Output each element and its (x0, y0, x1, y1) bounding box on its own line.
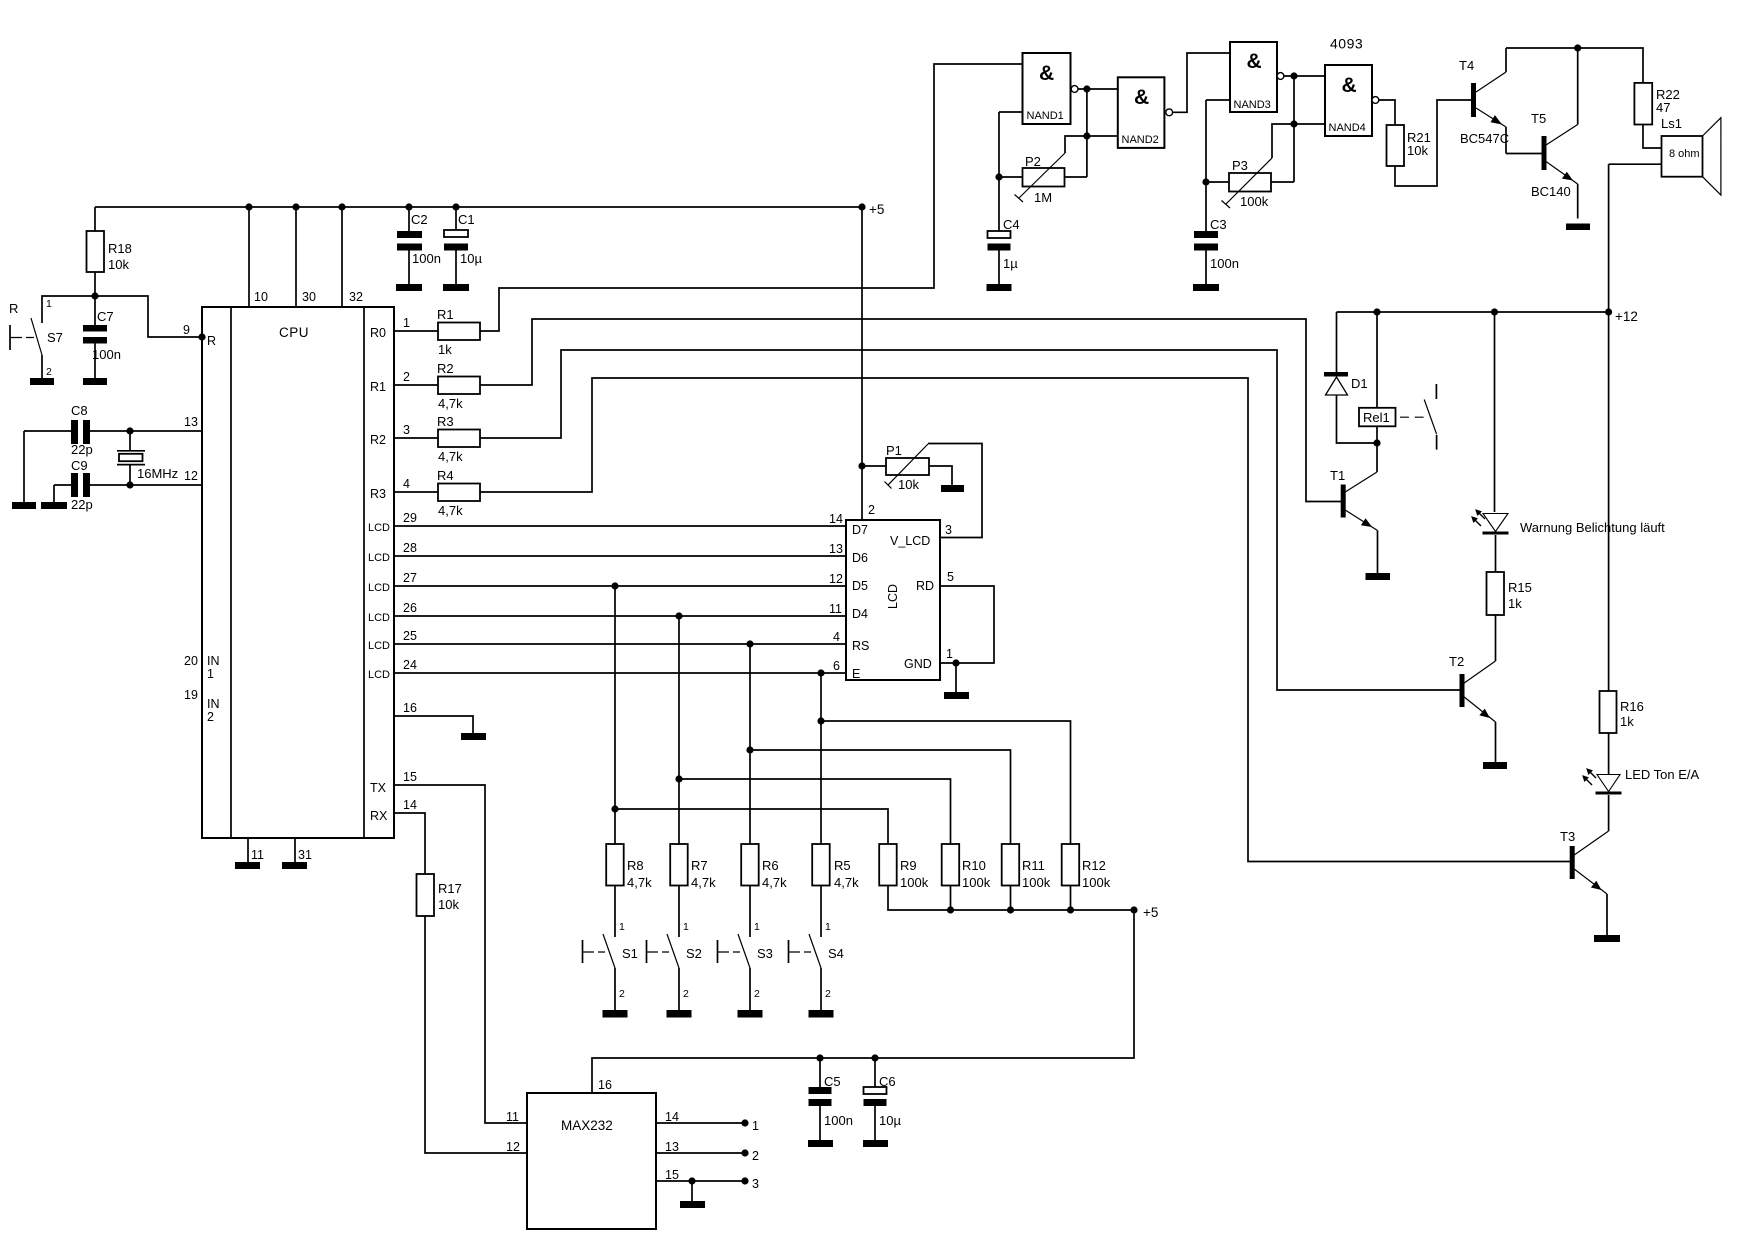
svg-text:1k: 1k (1508, 596, 1522, 611)
svg-text:11: 11 (506, 1110, 519, 1124)
svg-text:R10: R10 (962, 858, 986, 873)
wire LCD E (CPU pin 24 to LCD pin 6) (394, 672, 846, 674)
relay Rel1 (1359, 408, 1396, 427)
wire +5 vertical to LCD pin 2 (861, 207, 863, 520)
node C6 tap (871, 1054, 878, 1061)
svg-text:11: 11 (829, 602, 842, 616)
svg-text:10k: 10k (1407, 143, 1428, 158)
wire R12 bottom (1070, 886, 1072, 911)
svg-text:T2: T2 (1449, 654, 1464, 669)
wire D4 column down to R7 (678, 616, 680, 844)
node CPU pin 9 (198, 333, 205, 340)
svg-text:2: 2 (683, 988, 689, 1000)
capacitor C7 (83, 309, 121, 378)
wire D1 anode to relay bottom junction (1337, 395, 1378, 443)
node pin 15 ground tap (688, 1177, 695, 1184)
svg-text:4,7k: 4,7k (438, 503, 463, 518)
resistor R22 (1634, 83, 1652, 125)
svg-text:RX: RX (370, 809, 388, 823)
svg-text:10µ: 10µ (879, 1113, 901, 1128)
svg-text:10µ: 10µ (460, 251, 482, 266)
svg-text:D1: D1 (1351, 376, 1368, 391)
svg-text:100k: 100k (1082, 875, 1111, 890)
wire RS column down to R6 (749, 644, 751, 844)
ground S7 (30, 378, 54, 385)
svg-text:4,7k: 4,7k (762, 875, 787, 890)
svg-text:3: 3 (945, 523, 952, 537)
svg-text:10k: 10k (438, 897, 459, 912)
wire pin 15 to ground (691, 1181, 693, 1201)
ground LCD (944, 692, 969, 699)
wire MAX232 pin 15 to terminal 3 (656, 1180, 745, 1182)
wire R10 bottom (950, 886, 952, 911)
svg-text:4,7k: 4,7k (834, 875, 859, 890)
wire to NAND2 input A (1087, 88, 1118, 90)
svg-text:R3: R3 (437, 414, 454, 429)
switch S1 (583, 886, 638, 1011)
wire junction to P2 left (999, 176, 1023, 178)
capacitor C6 (864, 1058, 902, 1140)
resistor R18 (87, 231, 105, 272)
wire R15 to T2 collector (1495, 615, 1497, 661)
svg-text:4: 4 (403, 477, 410, 491)
node NAND2 input B junction (1083, 132, 1090, 139)
ground C7 (83, 378, 107, 385)
wire CPU R1 pin 2 to R2 (394, 384, 438, 386)
node R11 tap (746, 746, 753, 753)
svg-text:4093: 4093 (1330, 36, 1363, 52)
svg-text:2: 2 (207, 710, 214, 724)
wire CPU pin 32 to +5 rail (341, 207, 343, 307)
svg-text:1: 1 (825, 921, 831, 933)
svg-text:2: 2 (754, 988, 760, 1000)
crystal Q1 16MHz (117, 431, 178, 485)
wire P2 wiper to NAND2 input B node (1065, 136, 1087, 153)
svg-text:2: 2 (752, 1149, 759, 1163)
resistor R8 (606, 844, 624, 886)
ground C9 (41, 502, 67, 509)
svg-text:14: 14 (665, 1110, 679, 1124)
svg-text:TX: TX (370, 781, 387, 795)
svg-text:C3: C3 (1210, 217, 1227, 232)
svg-text:GND: GND (904, 657, 932, 671)
svg-text:T1: T1 (1330, 468, 1345, 483)
svg-text:10k: 10k (108, 257, 129, 272)
wire R11 bottom (1010, 886, 1012, 911)
ground P1 (941, 485, 964, 492)
svg-text:100k: 100k (1022, 875, 1051, 890)
op-amp U6 NAND4 (1325, 65, 1379, 136)
ground T2 emitter (1483, 762, 1507, 769)
resistor R16 (1600, 691, 1617, 733)
wire tap to R9 (615, 809, 888, 844)
wire rail to Rel1 coil top (1376, 312, 1378, 408)
node E tap (817, 669, 824, 676)
svg-text:10k: 10k (898, 477, 919, 492)
svg-text:S4: S4 (828, 946, 844, 961)
wire +5 to P1 (862, 465, 886, 467)
svg-text:P2: P2 (1025, 154, 1041, 169)
svg-text:100n: 100n (412, 251, 441, 266)
svg-text:LED Ton E/A: LED Ton E/A (1625, 767, 1700, 782)
svg-text:1: 1 (683, 921, 689, 933)
ground CPU pin 11 (235, 862, 260, 869)
resistor R17 (417, 874, 435, 916)
wire T4 emitter to T5 base (1506, 153, 1542, 155)
wire C9 left leg to ground (53, 485, 55, 502)
node LCD GND junction (952, 659, 959, 666)
svg-text:E: E (852, 667, 860, 681)
svg-text:LCD: LCD (368, 552, 390, 564)
wire LCD GND to ground (955, 663, 957, 692)
wire reset junction to CPU pin 9 (95, 296, 202, 337)
svg-text:30: 30 (302, 290, 316, 304)
potentiometer P3 (1222, 158, 1273, 209)
capacitor C3 (1194, 217, 1239, 284)
wire NAND1 input B to P2/C4 junction (998, 112, 1000, 231)
svg-text:4,7k: 4,7k (691, 875, 716, 890)
ground CPU pin 31 (282, 862, 307, 869)
svg-text:16MHz: 16MHz (137, 466, 178, 481)
wire NAND1 input B (999, 111, 1023, 113)
resistor R5 (812, 844, 830, 886)
wire P1 right terminal to ground (929, 466, 952, 485)
wire LCD D6 (CPU pin 28 to LCD pin 13) (394, 555, 846, 557)
ground C3 (1193, 284, 1219, 291)
node R10 tap (675, 775, 682, 782)
relay contact (1400, 384, 1437, 450)
wire tap to R10 (679, 779, 951, 844)
transistor T5 (1531, 48, 1578, 219)
svg-text:LCD: LCD (368, 522, 390, 534)
svg-text:R17: R17 (438, 881, 462, 896)
ground C5 (808, 1140, 833, 1147)
wire T4/T5 collector rail to R22 (1506, 48, 1643, 83)
svg-text:11: 11 (251, 848, 264, 862)
wire CPU pin 11 ground stub (247, 838, 249, 862)
svg-text:29: 29 (403, 511, 417, 525)
resistor R3 (438, 430, 480, 448)
wire XTAL2 net (CPU pin 12) (54, 484, 202, 486)
svg-text:LCD: LCD (368, 582, 390, 594)
svg-text:D4: D4 (852, 607, 868, 621)
svg-text:R1: R1 (437, 307, 454, 322)
wire to NAND4 input B (1294, 123, 1325, 125)
node D4 tap (675, 612, 682, 619)
svg-text:T3: T3 (1560, 829, 1575, 844)
svg-text:S1: S1 (622, 946, 638, 961)
wire to NAND2 input B (1087, 135, 1118, 137)
wire CPU R3 pin 4 to R4 (394, 491, 438, 493)
svg-text:C2: C2 (411, 212, 428, 227)
wire XTAL1 net (CPU pin 13) (24, 430, 202, 432)
ground T3 emitter (1594, 935, 1620, 942)
node +5 (pull-up rail) (1130, 906, 1137, 913)
svg-text:R: R (9, 301, 18, 316)
transistor T2 (1449, 654, 1496, 762)
wire NAND1 output feedback vertical (1078, 89, 1087, 177)
svg-text:C9: C9 (71, 458, 88, 473)
svg-text:&: & (1247, 50, 1262, 73)
ground C2 (396, 284, 422, 291)
svg-text:R7: R7 (691, 858, 708, 873)
svg-text:9: 9 (183, 323, 190, 337)
svg-text:1M: 1M (1034, 190, 1052, 205)
wire R17 to MAX232 pin 12 (425, 916, 527, 1153)
svg-text:RS: RS (852, 639, 869, 653)
node NAND3 output (1290, 72, 1297, 79)
svg-text:LCD: LCD (368, 612, 390, 624)
ground T1 emitter (1366, 573, 1391, 580)
svg-text:MAX232: MAX232 (561, 1118, 613, 1133)
svg-text:4: 4 (833, 630, 840, 644)
node C5 tap (816, 1054, 823, 1061)
svg-text:LCD: LCD (368, 669, 390, 681)
svg-text:S7: S7 (47, 330, 63, 345)
wire E column down to R5 (820, 673, 822, 844)
ground C1 (443, 284, 469, 291)
wire CPU RX pin 14 to R17 (394, 813, 425, 874)
CPU right pin numbers (403, 316, 417, 812)
svg-text:D6: D6 (852, 551, 868, 565)
wire D5 column down to R8 (614, 586, 616, 844)
wire LCD D7 (CPU pin 29 to LCD pin 14) (394, 525, 846, 527)
wire CPU pin 16 to ground (394, 716, 473, 733)
svg-text:1: 1 (752, 1119, 759, 1133)
capacitor C9 (71, 458, 93, 512)
resistor R7 (670, 844, 688, 886)
wire NAND4 output to R21 (1379, 100, 1395, 125)
wire R21 to T4 base (1395, 100, 1472, 186)
switch S4 (789, 886, 844, 1011)
svg-text:Rel1: Rel1 (1363, 410, 1390, 425)
op-amp U5 NAND3 (1230, 42, 1284, 112)
capacitor C4 (988, 217, 1020, 284)
svg-text:12: 12 (184, 469, 198, 483)
wire tap to R12 (821, 721, 1071, 844)
svg-text:R16: R16 (1620, 699, 1644, 714)
node rail to warning LED (1491, 308, 1498, 315)
node reset junction (91, 292, 98, 299)
wire P3 wiper to NAND4 input B node (1272, 124, 1294, 158)
svg-text:24: 24 (403, 658, 417, 672)
wire R1 to NAND1 input A (480, 64, 1023, 331)
resistor R11 (1002, 844, 1020, 886)
wire P2 right terminal to feedback (1065, 176, 1087, 178)
svg-text:Warnung Belichtung läuft: Warnung Belichtung läuft (1520, 520, 1665, 535)
svg-text:C7: C7 (97, 309, 114, 324)
ground S2 (667, 1010, 692, 1018)
node R9 tap (611, 805, 618, 812)
wire NAND3 input B to P3/C3 junction (1205, 100, 1207, 231)
wire +5 pull-up rail (888, 886, 1134, 911)
op-amp U2 LCD box (846, 520, 940, 681)
svg-text:1: 1 (946, 647, 953, 661)
svg-text:R3: R3 (370, 487, 386, 501)
wire LED Ton to T3 collector (1608, 795, 1610, 831)
svg-text:+5: +5 (869, 202, 884, 217)
wire LCD RS (CPU pin 25 to LCD pin 4) (394, 643, 846, 645)
svg-text:1: 1 (46, 298, 52, 310)
svg-text:13: 13 (184, 415, 198, 429)
wire Rel1 coil bottom to T1 collector (1376, 426, 1378, 472)
svg-text:C1: C1 (458, 212, 475, 227)
svg-text:V_LCD: V_LCD (890, 534, 930, 548)
svg-text:R0: R0 (370, 326, 386, 340)
potentiometer P1 (885, 443, 930, 492)
wire junction to S7 pin 1 (42, 296, 95, 323)
svg-text:20: 20 (184, 654, 198, 668)
resistor R1 (438, 323, 480, 341)
svg-text:14: 14 (403, 798, 417, 812)
svg-text:12: 12 (829, 572, 843, 586)
switch S7 (9, 298, 63, 378)
svg-text:LCD: LCD (886, 584, 900, 609)
svg-text:R8: R8 (627, 858, 644, 873)
svg-text:12: 12 (506, 1140, 520, 1154)
svg-text:R18: R18 (108, 241, 132, 256)
svg-text:15: 15 (665, 1168, 679, 1182)
wire LCD D5 (CPU pin 27 to LCD pin 12) (394, 585, 846, 587)
svg-text:R12: R12 (1082, 858, 1106, 873)
node R12 tap (817, 717, 824, 724)
resistor R10 (942, 844, 960, 886)
svg-text:13: 13 (829, 542, 843, 556)
transistor T3 (1560, 829, 1609, 935)
svg-text:31: 31 (298, 848, 312, 862)
wire to NAND4 input A (1294, 75, 1325, 77)
transistor T4 (1459, 48, 1509, 154)
svg-text:RD: RD (916, 579, 934, 593)
svg-text:100n: 100n (92, 347, 121, 362)
svg-text:T4: T4 (1459, 58, 1474, 73)
node +5 (top rail) (858, 203, 865, 210)
svg-text:1: 1 (754, 921, 760, 933)
node crystal bottom junction (126, 481, 133, 488)
op-amp U7 MAX232 box (527, 1093, 656, 1229)
resistor R15 (1487, 572, 1505, 615)
svg-text:2: 2 (825, 988, 831, 1000)
ground C8 (12, 502, 36, 509)
resistor R2 (438, 377, 480, 395)
svg-text:IN: IN (207, 654, 220, 668)
svg-text:D7: D7 (852, 523, 868, 537)
svg-text:8 ohm: 8 ohm (1669, 148, 1700, 160)
svg-text:S3: S3 (757, 946, 773, 961)
wire CPU pin 30 to +5 rail (295, 207, 297, 307)
wire NAND3 input B (1206, 99, 1230, 101)
svg-text:NAND2: NAND2 (1122, 134, 1159, 146)
wire junction to C7 (94, 296, 96, 325)
node P3 left junction (1202, 178, 1209, 185)
wire CPU pin 31 ground stub (294, 838, 296, 862)
LED Ton E/A (1580, 766, 1700, 795)
potentiometer P2 (1015, 153, 1066, 205)
svg-text:6: 6 (833, 659, 840, 673)
wire R3 to T2 base (480, 350, 1460, 690)
switch S3 (718, 886, 773, 1011)
capacitor C2 (397, 203, 441, 284)
svg-text:+5: +5 (1143, 905, 1158, 920)
svg-text:100k: 100k (900, 875, 929, 890)
node NAND1 output (1083, 85, 1090, 92)
svg-text:R6: R6 (762, 858, 779, 873)
svg-text:P1: P1 (886, 443, 902, 458)
wire +12 vertical trunk (speaker to R16) (1608, 164, 1610, 691)
wire LED to R15 (1495, 535, 1497, 572)
wire P1 wiper to LCD pin 3 V_LCD (928, 444, 982, 538)
svg-text:C5: C5 (824, 1074, 841, 1089)
svg-text:1k: 1k (1620, 714, 1634, 729)
svg-text:R1: R1 (370, 380, 386, 394)
wire NAND2 output to NAND3 input A (1173, 53, 1230, 112)
svg-text:T5: T5 (1531, 111, 1546, 126)
svg-text:CPU: CPU (279, 325, 309, 340)
wire R18 bottom to reset junction (94, 272, 96, 296)
svg-text:19: 19 (184, 688, 198, 702)
ground S3 (738, 1010, 763, 1018)
wire CPU TX pin 15 to MAX232 pin 11 (394, 785, 527, 1123)
svg-text:R2: R2 (370, 433, 386, 447)
svg-text:LCD: LCD (368, 640, 390, 652)
svg-text:2: 2 (619, 988, 625, 1000)
svg-text:2: 2 (46, 366, 52, 378)
svg-text:4,7k: 4,7k (438, 449, 463, 464)
svg-text:13: 13 (665, 1140, 679, 1154)
svg-text:P3: P3 (1232, 158, 1248, 173)
wire C8 left leg to ground (23, 431, 25, 502)
ground C4 (987, 284, 1012, 291)
svg-text:16: 16 (598, 1078, 612, 1092)
svg-text:3: 3 (403, 423, 410, 437)
svg-text:100k: 100k (1240, 194, 1269, 209)
svg-text:4,7k: 4,7k (627, 875, 652, 890)
node +12 (1605, 308, 1612, 315)
svg-text:22p: 22p (71, 497, 93, 512)
node D5 tap (611, 582, 618, 589)
svg-text:22p: 22p (71, 442, 93, 457)
node D1/Rel1/T1 junction (1373, 439, 1380, 446)
svg-text:5: 5 (947, 570, 954, 584)
svg-text:D5: D5 (852, 579, 868, 593)
svg-text:4,7k: 4,7k (438, 396, 463, 411)
ground T5 emitter (1566, 224, 1590, 231)
svg-text:Ls1: Ls1 (1661, 116, 1682, 131)
svg-text:100k: 100k (962, 875, 991, 890)
speaker Ls1 (1661, 116, 1721, 195)
wire +5 down to MAX232 pin 16 rail (592, 910, 1134, 1093)
ground CPU pin 16 (461, 733, 486, 740)
svg-text:25: 25 (403, 629, 417, 643)
wire R16 to LED Ton (1608, 733, 1610, 774)
svg-text:100n: 100n (824, 1113, 853, 1128)
wire MAX232 pin 14 to terminal 1 (656, 1122, 745, 1124)
wire R4 to T3 base (480, 378, 1570, 862)
svg-text:R11: R11 (1022, 858, 1045, 873)
svg-text:16: 16 (403, 701, 417, 715)
svg-text:C8: C8 (71, 403, 88, 418)
resistor R12 (1062, 844, 1080, 886)
transistor T1 (1330, 468, 1378, 573)
svg-text:26: 26 (403, 601, 417, 615)
svg-text:27: 27 (403, 571, 417, 585)
svg-text:2: 2 (403, 370, 410, 384)
wire MAX232 pin 13 to terminal 2 (656, 1152, 745, 1154)
wire CPU pin 10 to +5 rail (248, 207, 250, 307)
wire P3 right terminal to feedback (1271, 181, 1294, 183)
svg-text:R4: R4 (437, 468, 454, 483)
wire R18 top to rail (94, 207, 96, 231)
